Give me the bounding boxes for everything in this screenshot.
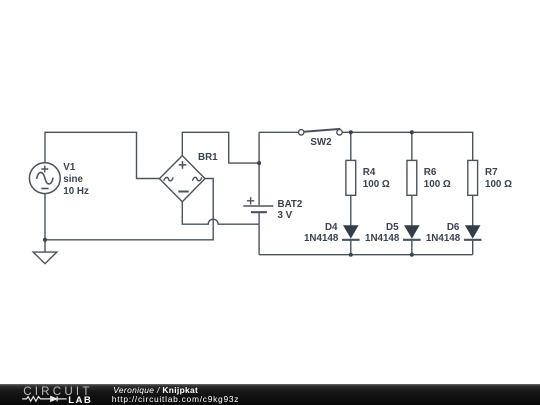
label V1 [63, 163, 75, 173]
value label 1N4148 (D5) [319, 234, 399, 244]
node: D5 tap on bottom rail [410, 253, 414, 257]
wire: bridge top vertex jog to battery top node [182, 132, 259, 163]
wire: R7 to D6 [472, 195, 474, 226]
footer bar [0, 384, 540, 405]
wire: R6 to D5 [411, 195, 413, 226]
wire: D4 cathode to bottom rail [350, 240, 352, 255]
wire: top rail left of switch [259, 131, 298, 133]
diode D6 [464, 225, 482, 240]
label R7 [485, 168, 498, 178]
battery BAT2 [243, 197, 273, 224]
diode D5 [403, 225, 421, 240]
resistor R4 [346, 160, 356, 195]
node: R6 tap on top rail [410, 130, 414, 134]
wire: R4 branch top [350, 132, 352, 160]
value label 3 V [278, 211, 293, 221]
node: D4 tap on bottom rail [349, 253, 353, 257]
value label 1N4148 (D4) [258, 234, 338, 244]
wire: V1 top to bridge left vertex [45, 132, 159, 178]
url line [112, 395, 239, 403]
diode D4 [342, 225, 360, 240]
label R4 [363, 168, 376, 178]
label BAT2 [278, 200, 303, 210]
wire: bottom rail of diode bank [259, 254, 473, 256]
switch SW2 [299, 129, 343, 135]
ground [33, 240, 57, 264]
wire: D6 cathode to bottom rail [472, 240, 474, 255]
wire: R6 branch top [411, 132, 413, 160]
wire: battery vertical (top node to plus plate) [258, 132, 260, 205]
value label 100 ohm (R7) [485, 180, 512, 190]
label D4 [258, 223, 338, 233]
wire: battery minus down to bottom rail [258, 224, 260, 255]
value label sine [63, 175, 83, 185]
resistor R7 [468, 160, 478, 195]
value label 1N4148 (D6) [380, 234, 460, 244]
label SW2 [310, 138, 331, 148]
wire: top rail right of switch to R7 branch [342, 132, 473, 160]
logo squiggle: resistor + diode [22, 397, 66, 402]
label D5 [319, 223, 399, 233]
logo LAB text [68, 396, 92, 405]
wire: D5 cathode to bottom rail [411, 240, 413, 255]
wire: V1 bottom lead [44, 194, 46, 240]
label BR1 [198, 153, 218, 163]
label R6 [424, 168, 437, 178]
wire: bridge bottom vertex to battery minus, with hop [182, 202, 259, 224]
value label 10 Hz [63, 187, 89, 197]
resistor R6 [407, 160, 417, 195]
value label 100 ohm (R6) [424, 180, 451, 190]
label D6 [379, 223, 459, 233]
node: battery top junction [257, 161, 261, 165]
node: R4 tap on top rail [349, 130, 353, 134]
bridge rectifier BR1 [159, 156, 205, 202]
wire: bottom left rail from ground node to bridge right vertex [45, 179, 213, 240]
wire: R4 to D4 [350, 195, 352, 226]
CircuitLab logo wordmark [23, 386, 92, 398]
value label 100 ohm (R4) [363, 180, 390, 190]
voltage source V1 [29, 163, 60, 194]
author line [113, 386, 198, 394]
node: ground junction [43, 238, 47, 242]
